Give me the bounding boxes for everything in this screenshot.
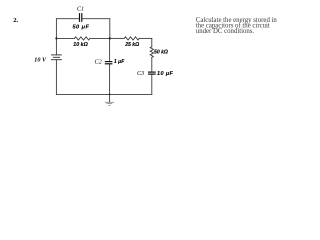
svg-text:10 μF: 10 μF: [157, 71, 174, 77]
svg-text:C1: C1: [77, 6, 84, 13]
svg-text:2.: 2.: [13, 17, 18, 24]
svg-text:1 μF: 1 μF: [114, 59, 125, 65]
svg-text:under DC conditions.: under DC conditions.: [196, 28, 255, 35]
svg-text:50 kΩ: 50 kΩ: [154, 50, 168, 56]
svg-text:25 kΩ: 25 kΩ: [124, 42, 139, 48]
svg-text:10 kΩ: 10 kΩ: [73, 42, 88, 48]
svg-text:50 μF: 50 μF: [73, 24, 90, 30]
svg-text:C3: C3: [137, 70, 144, 77]
svg-text:C2: C2: [95, 58, 102, 65]
svg-text:10 V: 10 V: [34, 56, 47, 63]
